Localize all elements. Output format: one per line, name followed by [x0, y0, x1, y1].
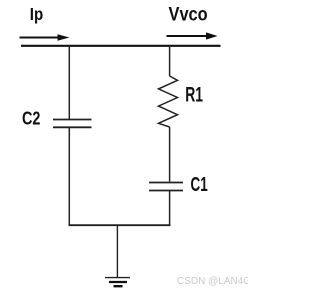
wire top rail	[21, 45, 221, 47]
wire bottom rail	[69, 224, 171, 226]
svg-text:CSDN @LAN4G: CSDN @LAN4G	[177, 276, 248, 287]
Vvco current arrow	[167, 32, 218, 39]
svg-text:C2: C2	[22, 108, 40, 129]
svg-text:R1: R1	[185, 83, 203, 106]
ground	[105, 278, 130, 287]
resistor R1	[159, 76, 204, 127]
wire ground stem	[116, 225, 118, 277]
wire right branch upper	[169, 46, 171, 76]
svg-text:Vvco: Vvco	[169, 3, 208, 25]
Ip current arrow	[20, 34, 70, 41]
svg-text:C1: C1	[191, 174, 208, 196]
capacitor C1	[149, 174, 208, 196]
capacitor C2	[22, 108, 92, 129]
svg-text:Ip: Ip	[30, 4, 44, 24]
wire right branch lower	[169, 191, 171, 227]
wire left branch upper	[68, 46, 70, 119]
wire left branch lower	[68, 127, 70, 226]
wire right branch middle	[169, 127, 171, 182]
